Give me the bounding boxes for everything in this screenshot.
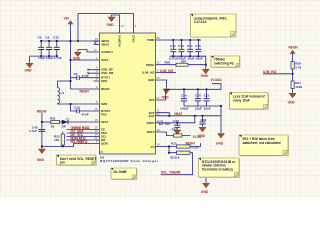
node junction C12 [172, 39, 174, 41]
capacitor C9 [45, 35, 53, 59]
svg-text:22uF: 22uF [195, 106, 202, 110]
svg-text:ILIM_HIZ: ILIM_HIZ [142, 71, 154, 75]
svg-text:30.31k: 30.31k [170, 156, 180, 160]
svg-text:10k: 10k [54, 138, 59, 142]
wire TS [164, 146, 170, 148]
svg-text:R30: R30 [165, 61, 171, 65]
wire cap bank bottom bus [30, 56, 57, 63]
svg-text:ILIM_HIZ: ILIM_HIZ [263, 70, 276, 74]
svg-text:PG2: PG2 [101, 112, 107, 116]
svg-text:pin: pin [60, 161, 65, 165]
ground GND PMID bus [201, 69, 210, 78]
note R21 datasheet [239, 135, 289, 156]
svg-text:SW2: SW2 [101, 102, 108, 106]
svg-text:100k: 100k [295, 85, 302, 89]
svg-text:SW1: SW1 [101, 79, 108, 83]
svg-text:Don't need SOL_RESET: Don't need SOL_RESET [60, 157, 96, 161]
wire QON pulldown run [42, 144, 94, 147]
node junction gnd bus [220, 105, 222, 107]
svg-text:3uF 50V: 3uF 50V [159, 122, 172, 126]
svg-text:C10: C10 [74, 106, 80, 110]
svg-text:REGN: REGN [80, 89, 90, 93]
node junction C21 [206, 88, 208, 90]
node junction TS [168, 145, 170, 147]
wire VBUS rail [41, 41, 99, 45]
capacitor C40 [200, 116, 207, 127]
svg-text:L3: L3 [61, 91, 65, 95]
note thermistor [199, 158, 241, 178]
svg-text:R22: R22 [171, 141, 177, 145]
USB_DM stub [87, 72, 94, 74]
node junction VAC1 [69, 59, 71, 61]
svg-text:R32: R32 [50, 117, 56, 121]
node junction SW1 [69, 80, 71, 82]
svg-text:VLDO: VLDO [193, 135, 202, 139]
wire GND pin [164, 80, 167, 89]
svg-text:10uF: 10uF [196, 57, 203, 61]
svg-text:887: 887 [181, 60, 186, 64]
wire REGN rail left [37, 110, 47, 149]
svg-text:thermistor in battery: thermistor in battery [202, 167, 233, 171]
svg-text:VBUS: VBUS [101, 43, 109, 47]
IC left pin names [101, 39, 114, 145]
note 750kHz switching [211, 56, 241, 68]
ground GND thermistor [201, 178, 210, 195]
svg-text:C12-c14: C12-c14 [194, 20, 206, 24]
svg-text:VLOAD: VLOAD [211, 78, 223, 82]
capacitor C10b bootstrap2 47nF [71, 104, 94, 117]
svg-text:BAT: BAT [149, 114, 155, 118]
svg-text:C20: C20 [195, 93, 201, 97]
node junction divider [292, 73, 294, 75]
svg-text:REGN: REGN [101, 87, 109, 91]
svg-text:REGN: REGN [186, 141, 196, 145]
svg-text:SYS: SYS [149, 98, 155, 102]
svg-text:ACDRV2: ACDRV2 [118, 35, 122, 47]
wire CE with net label CHARGE_EN [67, 126, 94, 130]
svg-text:C13: C13 [178, 44, 184, 48]
svg-text:switching FS: switching FS [214, 62, 234, 66]
node junction GND run [41, 145, 43, 147]
svg-text:2.7k: 2.7k [295, 65, 301, 69]
svg-text:GND: GND [201, 190, 209, 194]
wire SW1 to inductor [58, 81, 71, 88]
note footprint 0402 [191, 14, 237, 38]
node junction C40 top [201, 115, 203, 117]
svg-text:GND: GND [288, 101, 296, 105]
power port REGN right divider [289, 46, 299, 62]
node junction R33 bottom [62, 145, 64, 147]
wire SW2 from inductor [58, 103, 94, 106]
svg-text:C8: C8 [38, 35, 42, 39]
ground GND at ACDRV1 [73, 52, 81, 60]
capacitor C12 0.47uF [169, 40, 179, 61]
svg-text:47nF: 47nF [82, 113, 89, 117]
resistor R33 10k [54, 132, 64, 147]
note I2C address [111, 168, 138, 180]
svg-text:VAC2: VAC2 [132, 35, 136, 43]
svg-text:0.47uF: 0.47uF [169, 57, 179, 61]
ground GND divider [288, 93, 297, 104]
svg-text:10uF: 10uF [187, 57, 194, 61]
wire VAC1 to VBUS tie [71, 41, 94, 89]
ground GND C43 [174, 130, 181, 135]
svg-text:VIN: VIN [64, 17, 70, 21]
resistor R23 30.31k [161, 147, 193, 175]
wire BAT rail [164, 113, 222, 116]
svg-text:C43: C43 [173, 119, 179, 123]
wire REGN pin stub [71, 89, 94, 93]
capacitor C21 22uF [204, 89, 211, 110]
capacitor C16 100uF [180, 89, 189, 110]
svg-text:PROG: PROG [146, 63, 155, 67]
resistor R32 [42, 117, 60, 129]
wire ACDRV1 hook [78, 50, 94, 52]
capacitor C10 [53, 35, 62, 59]
svg-text:R31: R31 [172, 128, 178, 132]
power port VIN [64, 17, 74, 42]
ground GND pin25 [162, 89, 171, 100]
note less 22uF [230, 93, 270, 111]
svg-text:GND: GND [216, 142, 224, 146]
node junction C14 [189, 39, 191, 41]
svg-text:SOL_RESET 12: SOL_RESET 12 [71, 140, 88, 144]
node junction C16 [183, 88, 185, 90]
svg-text:GND: GND [201, 74, 209, 78]
svg-text:C9: C9 [45, 35, 49, 39]
diode D6 LED [60, 118, 94, 129]
IC right pin names [142, 38, 155, 149]
svg-text:BATP: BATP [147, 130, 155, 134]
wire SDA with net label I2C_SDA [67, 130, 94, 134]
svg-text:TS: TS [151, 145, 155, 149]
capacitor C42 4.7uF [29, 125, 45, 133]
ground GND sys bus [216, 134, 225, 146]
capacitor C15 10uF [195, 40, 203, 61]
node junction C15 [197, 39, 199, 41]
IC pin stubs top [120, 28, 134, 34]
inductor L3 [58, 88, 65, 104]
net label SOL_RESET on QON wire [71, 140, 88, 144]
svg-text:VAC1: VAC1 [101, 58, 109, 62]
svg-text:ACDRV1: ACDRV1 [101, 50, 113, 54]
svg-text:PMID: PMID [147, 38, 154, 42]
svg-text:QON: QON [101, 142, 108, 146]
note SOL_RESET [57, 155, 97, 166]
svg-text:4.7uF: 4.7uF [29, 129, 37, 133]
wire SYS rail [164, 84, 222, 100]
svg-text:C40: C40 [201, 118, 207, 122]
svg-text:GND: GND [25, 69, 33, 73]
svg-text:5.23k: 5.23k [191, 146, 199, 150]
svg-text:C6: C6 [74, 72, 78, 76]
svg-text:C16: C16 [181, 93, 187, 97]
wire VBUS to VAC2 top loop [78, 14, 134, 42]
USB_DP stub [87, 69, 94, 71]
capacitor C14 10uF [187, 40, 195, 61]
node junction R23 [168, 152, 170, 154]
svg-text:USB_DM: USB_DM [101, 71, 114, 75]
capacitor C8 [38, 35, 46, 59]
svg-text:ILIM_HIZ: ILIM_HIZ [160, 69, 173, 73]
svg-text:GND: GND [37, 158, 45, 162]
wire SDRV to BAT [164, 116, 195, 123]
svg-text:REGN: REGN [289, 46, 299, 50]
svg-text:C21: C21 [204, 93, 210, 97]
resistor R22 5.23k [169, 141, 201, 149]
svg-text:C12: C12 [170, 44, 176, 48]
svg-text:47nF: 47nF [82, 74, 89, 78]
node junction VBUS-2 [77, 40, 79, 42]
wire INT with net label NCHG_INT [67, 137, 94, 141]
IC top pin names (vertical) [118, 35, 136, 47]
ground GND C40 [198, 127, 206, 138]
ground GND at ACDRV2 [107, 15, 120, 28]
wire SCL with net label I2C_SCL [67, 133, 94, 137]
capacitor C13 10uF [178, 40, 186, 61]
svg-text:GND: GND [107, 23, 115, 27]
resistor R20 2.7k [291, 62, 302, 74]
node junction C13 [180, 39, 182, 41]
capacitor C6 bootstrap 47nF [71, 72, 94, 80]
svg-text:BQ25798RQMR Solar Charger: BQ25798RQMR Solar Charger [100, 159, 159, 163]
node junction SW2 [69, 103, 71, 105]
svg-text:VBAT: VBAT [174, 112, 182, 116]
IC pin stubs right [156, 40, 164, 147]
svg-text:100uF: 100uF [180, 106, 189, 110]
resistor R30 887 [164, 60, 206, 67]
IC U8 designator and part name [100, 155, 159, 163]
IC pin stubs left [94, 41, 100, 144]
wire SYS gnd bus [184, 106, 221, 133]
svg-text:2k: 2k [51, 124, 55, 128]
svg-text:SDRV: SDRV [147, 121, 155, 125]
svg-text:REGN: REGN [37, 110, 47, 114]
node junction BAT [168, 115, 170, 117]
wire ILIM_HIZ stub with net label [160, 69, 176, 73]
capacitor C43 [159, 119, 181, 130]
node junction STAT branch [41, 121, 43, 123]
node junction C43 top [176, 122, 178, 124]
wire PMID cap gnd bus [170, 56, 206, 69]
wire PMID rail [164, 39, 202, 41]
IC U8 BQ25798RQMR body [100, 33, 156, 154]
node junction SDRV-BAT [194, 115, 196, 117]
svg-text:C14: C14 [187, 44, 193, 48]
resistor R21 100k [291, 74, 302, 93]
resistor R31 [164, 128, 191, 137]
svg-text:STAT: STAT [101, 120, 108, 124]
svg-text:C15: C15 [195, 44, 201, 48]
svg-text:C10: C10 [53, 35, 59, 39]
IC pin numbers [94, 24, 164, 154]
capacitor C20 22uF [195, 89, 202, 110]
svg-text:GND: GND [148, 78, 154, 82]
node junction R30 gnd [205, 64, 207, 66]
node junction VBUS-1 [69, 40, 71, 42]
svg-text:I2c 0x6B: I2c 0x6B [114, 170, 128, 174]
ground GND cap bank left [25, 63, 34, 72]
svg-text:22uF: 22uF [204, 106, 211, 110]
svg-text:SOL_THERM: SOL_THERM [161, 171, 181, 175]
ground GND bottom left [37, 149, 46, 162]
wire ILIM_HIZ to divider [263, 70, 293, 74]
svg-text:many 10uF: many 10uF [233, 98, 250, 102]
svg-text:datasheet, not calculated: datasheet, not calculated [243, 141, 281, 145]
node junction C20 [197, 88, 199, 90]
svg-text:D6: D6 [62, 124, 66, 128]
